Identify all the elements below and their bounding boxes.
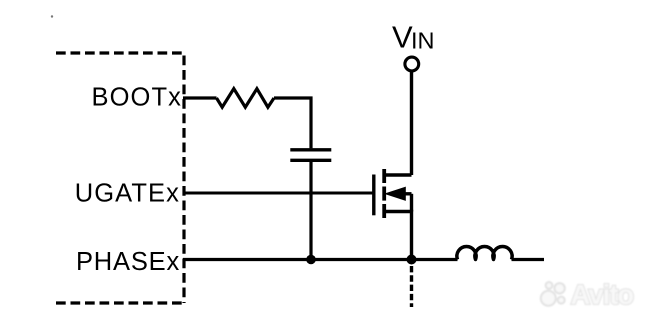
wire inductor to output	[512, 258, 545, 261]
body lead with arrow	[401, 192, 412, 195]
gate bar	[372, 175, 375, 216]
IC boundary (dashed box, open on left)	[56, 53, 187, 303]
capacitor C (bootstrap)	[290, 150, 331, 161]
watermark Avito logo	[541, 279, 634, 310]
node VIN terminal circle	[405, 57, 419, 71]
svg-text:IN: IN	[411, 28, 435, 54]
wire UGATEx pin to MOSFET gate	[183, 191, 373, 194]
svg-text:Avito: Avito	[571, 279, 634, 310]
wire PHASEx pin to inductor	[183, 258, 458, 261]
svg-text:BOOTx: BOOTx	[91, 84, 182, 112]
svg-text:UGATEx: UGATEx	[75, 180, 180, 208]
junction dot at MOSFET source / PHASEx	[407, 255, 417, 265]
junction dot at capacitor / PHASEx	[306, 255, 316, 265]
channel bar (3 dashes)	[382, 169, 386, 218]
resistor R (bootstrap)	[217, 89, 275, 108]
wire BOOTx pin to resistor	[183, 96, 217, 99]
wire capacitor bottom to PHASEx node	[309, 162, 312, 260]
svg-text:V: V	[392, 20, 413, 55]
wire resistor to capacitor top	[274, 98, 311, 148]
speck artifact top-left	[51, 15, 53, 17]
drain lead	[384, 173, 411, 176]
svg-text:PHASEx: PHASEx	[76, 248, 180, 276]
source lead	[384, 212, 411, 260]
dotted net continuation below PHASE node	[410, 266, 413, 307]
inductor L (output)	[457, 247, 512, 260]
MOSFET Q (high-side N-channel)	[374, 169, 412, 260]
wire VIN to MOSFET drain	[410, 71, 413, 175]
